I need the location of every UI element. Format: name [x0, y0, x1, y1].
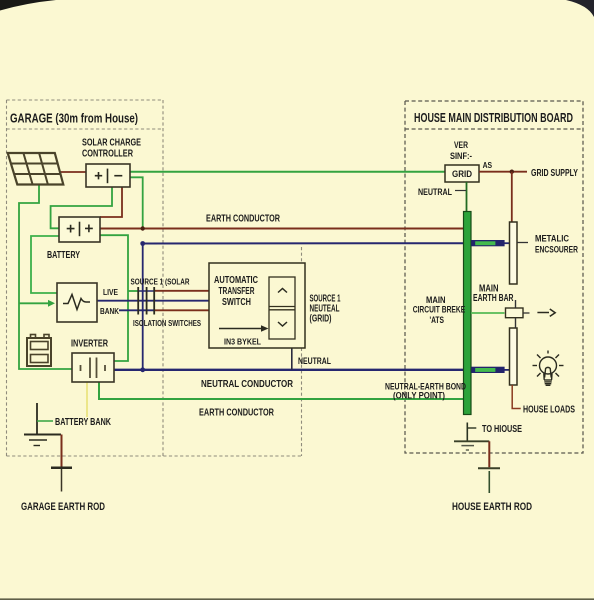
svg-text:GRID SUPPLY: GRID SUPPLY	[531, 168, 578, 179]
svg-text:EARTH CONDUCTOR: EARTH CONDUCTOR	[206, 214, 281, 225]
svg-text:CIRCUIT BREKE: CIRCUIT BREKE	[413, 305, 466, 316]
svg-text:SINF:-: SINF:-	[450, 151, 472, 161]
svg-text:BANK: BANK	[100, 306, 120, 316]
svg-text:GARAGE (30m from House): GARAGE (30m from House)	[10, 111, 138, 126]
svg-text:NEUTRAL: NEUTRAL	[298, 356, 331, 366]
svg-text:AUTOMATIC: AUTOMATIC	[214, 275, 258, 286]
svg-text:EARTH CONDUCTOR: EARTH CONDUCTOR	[199, 408, 275, 419]
svg-text:HOUSE MAIN DISTRIBUTION BOARD: HOUSE MAIN DISTRIBUTION BOARD	[414, 111, 573, 125]
svg-text:LIVE: LIVE	[103, 287, 118, 297]
svg-text:TO HIOUSE: TO HIOUSE	[482, 424, 522, 435]
svg-text:(GRID): (GRID)	[310, 314, 332, 325]
svg-text:HOUSE LOADS: HOUSE LOADS	[523, 405, 575, 416]
svg-text:METALIC: METALIC	[535, 234, 569, 244]
svg-text:BATTERY BANK: BATTERY BANK	[55, 417, 112, 428]
svg-text:SWITCH: SWITCH	[222, 297, 251, 308]
svg-text:HOUSE EARTH ROD: HOUSE EARTH ROD	[452, 501, 532, 513]
svg-text:NEUTRAL: NEUTRAL	[418, 187, 452, 197]
svg-text:AS: AS	[483, 160, 493, 170]
svg-text:CONTROLLER: CONTROLLER	[82, 148, 133, 160]
svg-text:TRANSFER: TRANSFER	[219, 286, 256, 297]
svg-text:GARAGE EARTH ROD: GARAGE EARTH ROD	[21, 501, 105, 513]
svg-text:EARTH BAR: EARTH BAR	[473, 293, 514, 304]
svg-text:ENCSOURER: ENCSOURER	[535, 245, 578, 255]
svg-text:INVERTER: INVERTER	[71, 339, 109, 350]
svg-text:GRID: GRID	[452, 169, 472, 180]
svg-text:ISOLATION SWITCHES: ISOLATION SWITCHES	[133, 318, 201, 328]
svg-text:NEUTRAL CONDUCTOR: NEUTRAL CONDUCTOR	[201, 379, 294, 390]
svg-text:(ONLY POINT): (ONLY POINT)	[393, 391, 445, 401]
svg-text:SOURCE 1 (SOLAR: SOURCE 1 (SOLAR	[131, 277, 190, 287]
svg-text:BATTERY: BATTERY	[47, 249, 80, 261]
svg-text:VER: VER	[454, 140, 468, 150]
svg-text:'ATS: 'ATS	[430, 315, 445, 326]
svg-text:IN3 BYKEL: IN3 BYKEL	[224, 337, 261, 347]
